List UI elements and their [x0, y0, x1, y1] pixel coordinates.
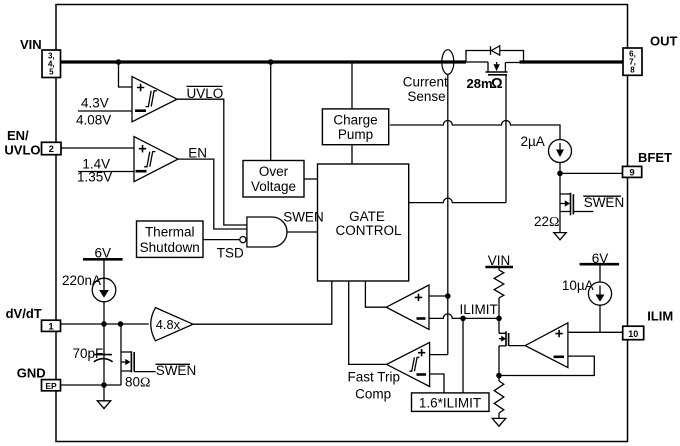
svg-text:Voltage: Voltage: [251, 179, 296, 194]
svg-text:CONTROL: CONTROL: [335, 223, 401, 238]
svg-text:70pF: 70pF: [73, 346, 104, 361]
svg-text:Over: Over: [259, 164, 289, 179]
svg-text:220nA: 220nA: [62, 273, 101, 288]
svg-text:4.08V: 4.08V: [76, 113, 111, 128]
svg-text:VIN: VIN: [20, 37, 42, 52]
svg-text:10µA: 10µA: [562, 278, 594, 293]
svg-text:TSD: TSD: [217, 246, 244, 261]
svg-text:1.35V: 1.35V: [77, 170, 112, 185]
svg-text:Charge: Charge: [333, 112, 377, 127]
svg-text:UVLO: UVLO: [187, 86, 224, 101]
svg-text:2: 2: [49, 144, 54, 155]
svg-text:5: 5: [49, 67, 54, 76]
svg-text:8: 8: [630, 65, 635, 74]
svg-text:GND: GND: [17, 365, 46, 380]
svg-text:10: 10: [628, 329, 638, 339]
svg-text:ILIMIT: ILIMIT: [460, 302, 498, 317]
svg-text:1: 1: [48, 322, 54, 333]
svg-text:9: 9: [629, 168, 634, 179]
svg-text:SWEN: SWEN: [156, 363, 197, 378]
svg-text:SWEN: SWEN: [283, 210, 324, 225]
svg-text:22Ω: 22Ω: [534, 214, 559, 230]
svg-text:EN: EN: [188, 146, 207, 161]
svg-text:Fast Trip: Fast Trip: [348, 369, 401, 384]
svg-text:Comp: Comp: [355, 387, 391, 402]
svg-text:Shutdown: Shutdown: [140, 240, 200, 255]
svg-text:OUT: OUT: [650, 34, 678, 49]
svg-text:GATE: GATE: [349, 209, 385, 224]
svg-text:Thermal: Thermal: [145, 225, 195, 240]
svg-text:Pump: Pump: [338, 127, 373, 142]
svg-text:UVLO: UVLO: [4, 143, 40, 158]
svg-text:SWEN: SWEN: [584, 195, 625, 210]
svg-text:ILIM: ILIM: [647, 308, 673, 323]
svg-text:4.3V: 4.3V: [81, 96, 109, 111]
svg-text:Ω: Ω: [491, 76, 503, 92]
svg-text:dV/dT: dV/dT: [6, 306, 42, 321]
svg-text:2µA: 2µA: [521, 134, 545, 149]
svg-text:Sense: Sense: [407, 89, 445, 104]
svg-text:BFET: BFET: [638, 150, 672, 165]
svg-text:EN/: EN/: [7, 128, 29, 143]
svg-text:Current: Current: [403, 75, 448, 90]
svg-text:EP: EP: [45, 381, 57, 391]
svg-text:28m: 28m: [467, 76, 493, 91]
svg-text:80Ω: 80Ω: [125, 375, 150, 391]
svg-text:4.8x: 4.8x: [156, 317, 181, 332]
svg-text:1.6*ILIMIT: 1.6*ILIMIT: [419, 395, 481, 410]
